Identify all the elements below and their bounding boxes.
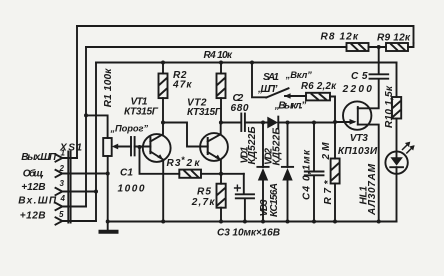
svg-text:*: * (181, 155, 185, 165)
svg-text:5: 5 (59, 210, 64, 219)
svg-text:R3: R3 (167, 158, 181, 169)
svg-text:2М: 2М (321, 142, 332, 161)
svg-text:680: 680 (231, 103, 249, 114)
svg-text:R1 100к: R1 100к (103, 68, 114, 108)
svg-text:SA1: SA1 (263, 72, 279, 83)
svg-text:Вых.ШП: Вых.ШП (21, 152, 57, 163)
svg-text:КД522Б: КД522Б (247, 127, 258, 165)
svg-text:R6 2,2к: R6 2,2к (301, 81, 337, 92)
svg-text:R10 1,5к: R10 1,5к (384, 85, 395, 128)
svg-text:„Порог”: „Порог” (110, 123, 149, 134)
svg-text:4: 4 (60, 194, 66, 203)
svg-text:2: 2 (59, 164, 65, 173)
svg-text:2,7к: 2,7к (191, 197, 216, 208)
svg-text:КД522Б: КД522Б (272, 128, 283, 166)
svg-text:КТ315Г: КТ315Г (187, 107, 222, 118)
svg-text:R9 12к: R9 12к (377, 32, 411, 43)
svg-text:47к: 47к (172, 80, 192, 91)
svg-text:КП103И: КП103И (338, 146, 378, 157)
svg-text:C4 0,1мк: C4 0,1мк (302, 149, 313, 200)
svg-text:КС156А: КС156А (269, 183, 280, 217)
svg-text:„ШП”: „ШП” (257, 84, 278, 95)
svg-text:1000: 1000 (118, 183, 145, 194)
svg-text:1: 1 (61, 149, 66, 158)
svg-text:„Вкл”: „Вкл” (285, 69, 312, 80)
svg-text:КТ315Г: КТ315Г (124, 107, 159, 118)
svg-text:Вх.ШП: Вх.ШП (18, 196, 57, 207)
svg-text:С3 10мк×16В: С3 10мк×16В (217, 227, 280, 238)
svg-text:„Выкл.”: „Выкл.” (274, 100, 307, 111)
svg-text:+12В: +12В (21, 182, 45, 193)
svg-text:C1: C1 (120, 168, 133, 179)
svg-text:R4 10к: R4 10к (204, 50, 233, 61)
svg-text:VT3: VT3 (350, 133, 369, 144)
svg-text:АЛ307АМ: АЛ307АМ (367, 163, 378, 216)
svg-text:3: 3 (60, 179, 65, 188)
svg-text:R8 12к: R8 12к (321, 32, 359, 43)
svg-text:R7*: R7* (323, 179, 334, 204)
svg-text:+12В: +12В (20, 210, 46, 221)
svg-text:Общ.: Общ. (23, 167, 44, 179)
